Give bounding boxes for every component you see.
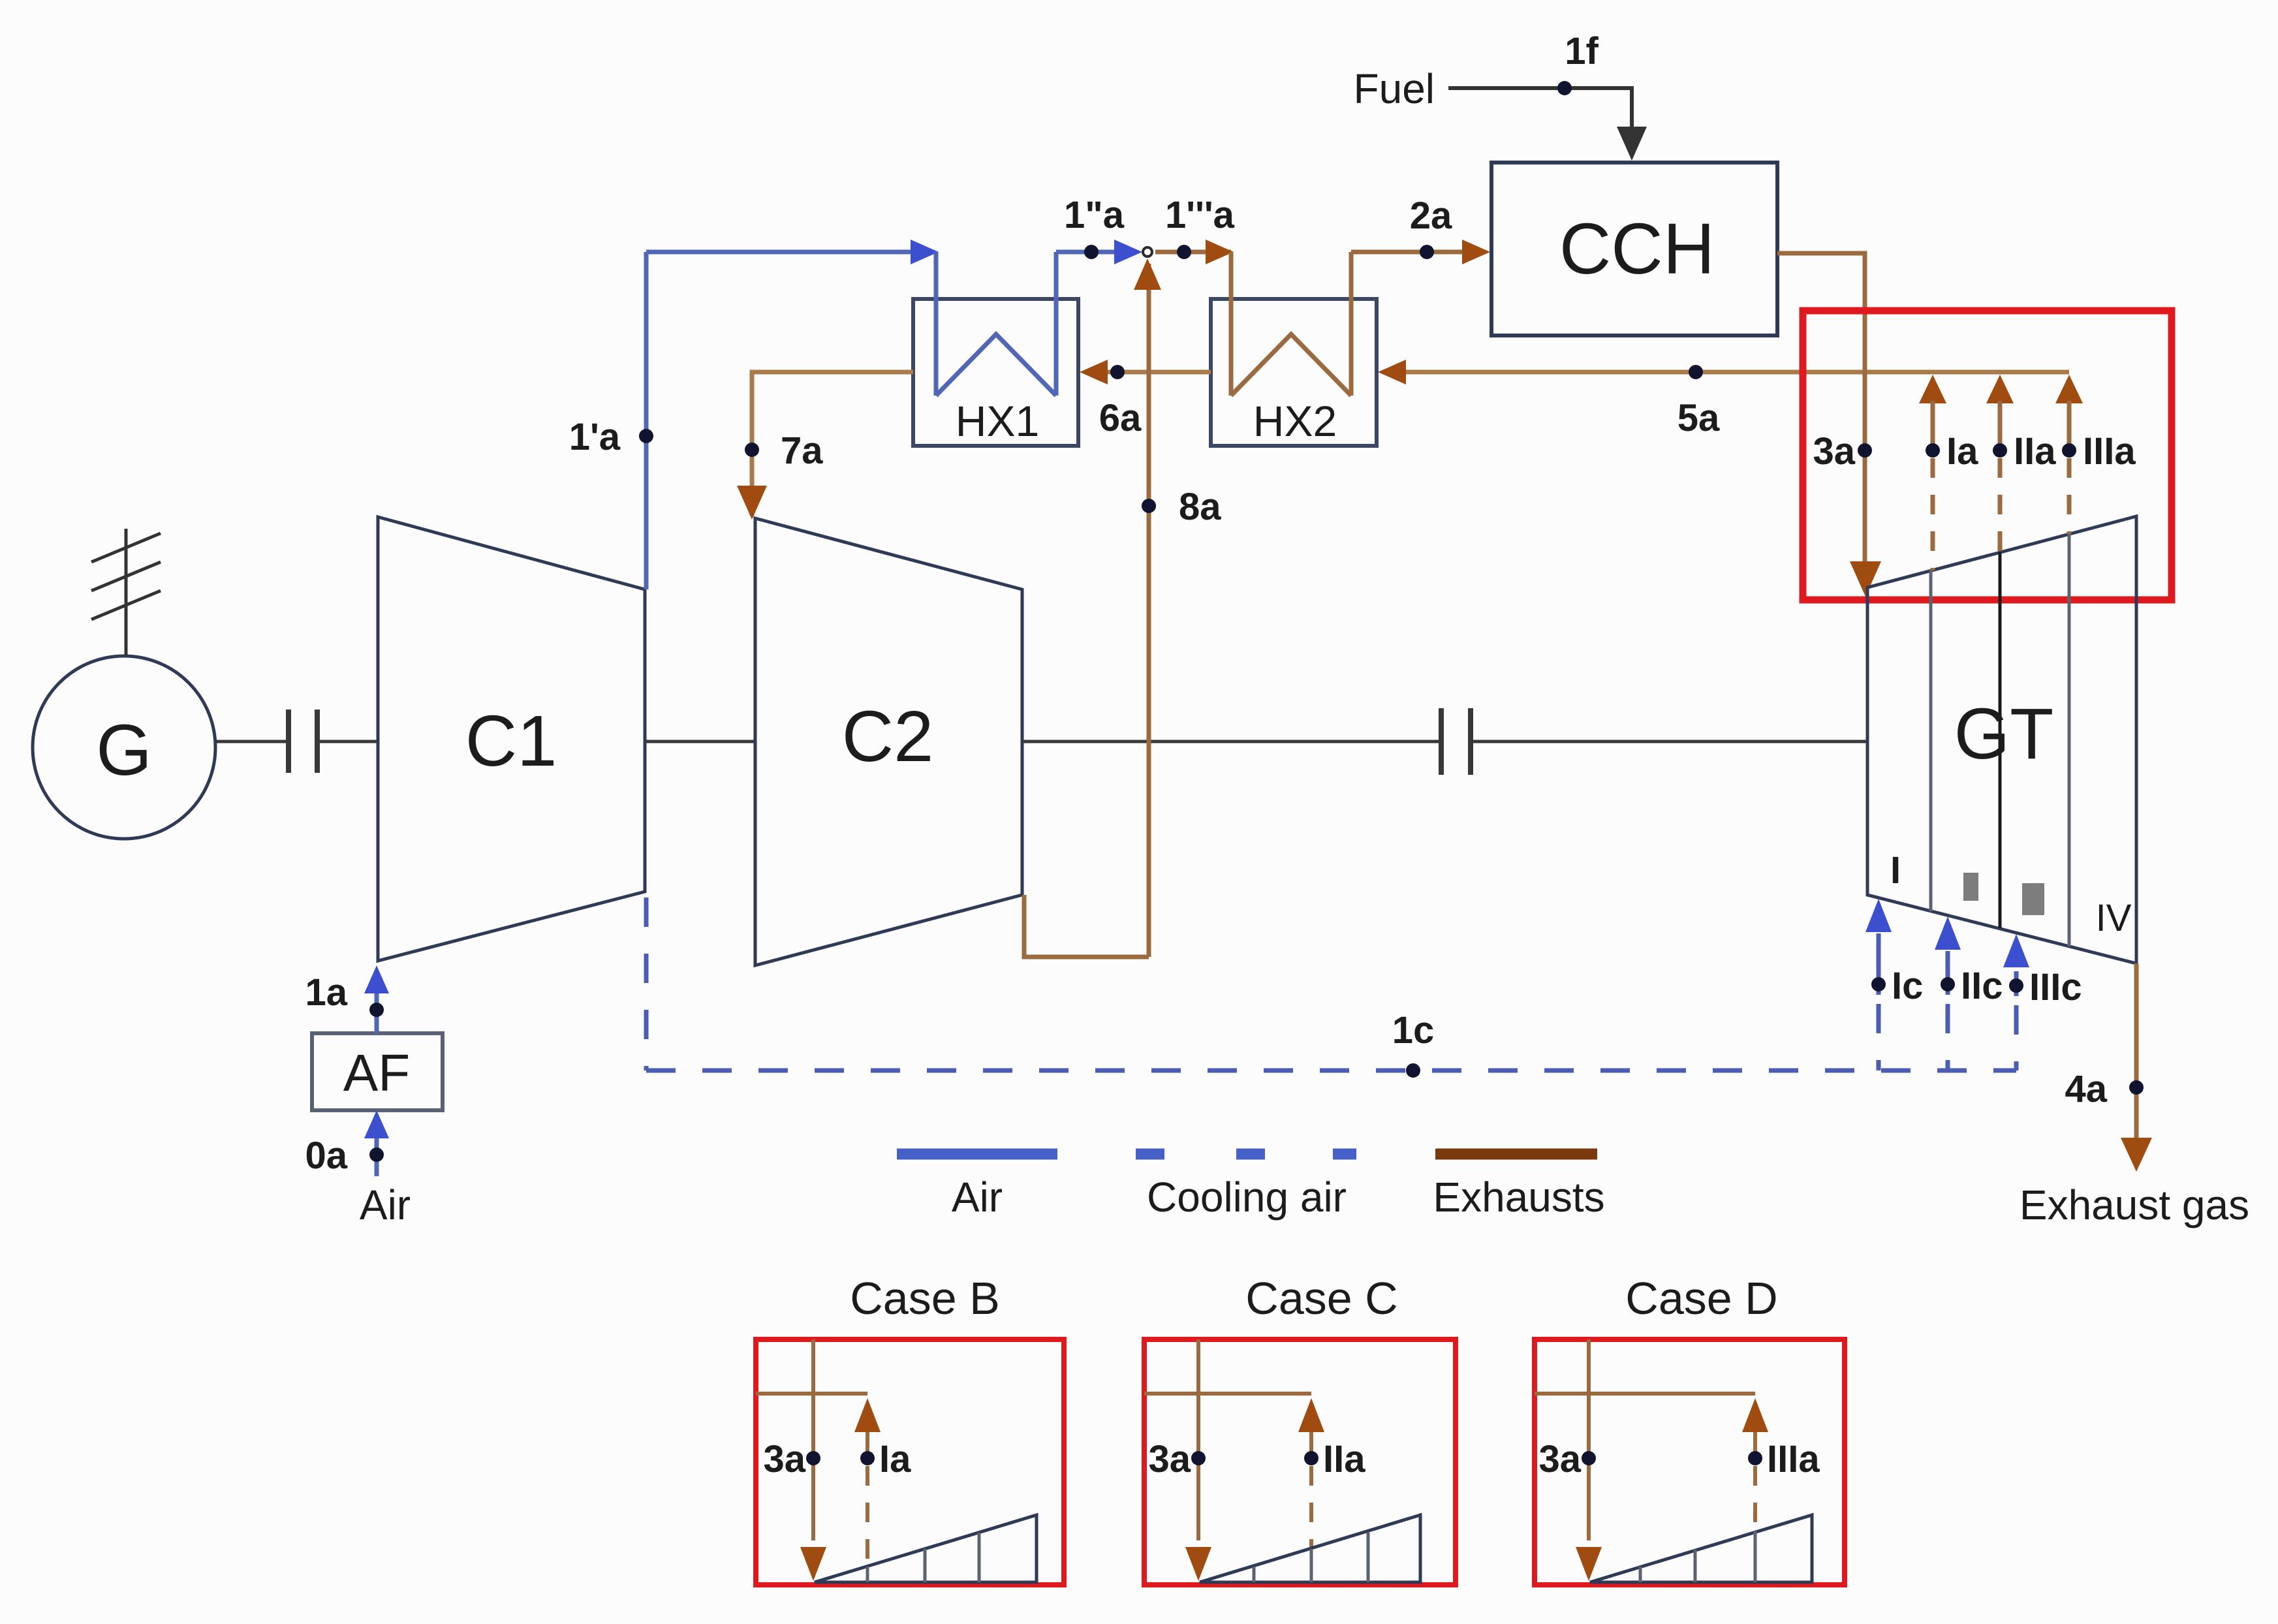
svg-text:AF: AF [343,1044,410,1102]
svg-text:IV: IV [2096,897,2132,939]
GT stage separator line 1 [1929,570,1933,911]
node 1'a dot [639,429,653,443]
bleed line IIIa arrow up [2055,375,2083,403]
node 1a dot [369,1003,384,1017]
combustion chamber CCH [1491,163,1777,336]
svg-text:1'''a: 1'''a [1165,194,1235,236]
wire 8a riser [1147,264,1151,957]
case B arrow Ia up [854,1398,881,1432]
wire AF to C1 inlet [375,992,379,1033]
svg-text:IIa: IIa [2014,430,2056,473]
grid phase slash 3 [91,591,161,619]
svg-text:IIa: IIa [1323,1438,1365,1480]
HX1 air coil outlet pipe [1054,252,1059,396]
shaft C1 to C2 [645,740,755,743]
wire exhaust 5a line to HX2 [1383,370,2069,375]
bleed line IIIa dashed [2067,458,2072,534]
case C 3a feed line [1196,1339,1200,1540]
wire junction to HX2 [1155,250,1231,255]
legend cooling air dash 2 [1236,1149,1265,1160]
GT stage separator line 3 [2068,534,2071,946]
svg-text:3a: 3a [1538,1438,1581,1480]
cooling line IIIc arrow [2003,934,2029,967]
arrow air into AF [364,1110,389,1138]
node 6a dot [1110,365,1125,379]
node 5a dot [1689,365,1703,379]
svg-text:Exhaust gas: Exhaust gas [2020,1181,2249,1228]
case B bleed Ia dashed [866,1466,869,1561]
svg-text:Ia: Ia [879,1438,911,1480]
case D bleed IIIa dashed [1753,1466,1757,1533]
svg-text:I: I [1890,849,1901,892]
bleed line IIa upper segment [1998,401,2003,450]
wire C1 outlet air riser 1'a [644,252,649,589]
arrow fuel into CCH [1617,127,1647,161]
legend air solid bar [897,1149,1057,1160]
svg-text:IIIa: IIIa [2083,430,2136,473]
HX1 air coil chevron [936,334,1056,396]
arrow exhaust into HX1 [1080,360,1108,384]
wire CCH outlet to GT inlet [1777,253,1865,567]
junction node circle [1143,247,1152,257]
HX2 gas coil chevron [1231,334,1351,396]
red box around GT top [1803,311,2172,600]
svg-text:6a: 6a [1099,397,1142,439]
svg-text:C1: C1 [465,701,557,781]
svg-text:Ia: Ia [1946,430,1978,473]
case C bleed horizontal wire [1144,1392,1311,1396]
svg-text:C2: C2 [842,696,934,777]
case C wedge separator 1 [1253,1567,1256,1582]
case D bleed horizontal wire [1535,1392,1755,1396]
svg-text:Air: Air [360,1181,411,1228]
svg-text:1f: 1f [1565,30,1599,72]
svg-text:Case B: Case B [850,1273,1000,1324]
svg-text:7a: 7a [781,429,823,472]
case B arrow 3a down [800,1547,826,1581]
node Ic dot [1871,977,1886,992]
generator G [33,656,215,839]
arrow air into junction [1114,240,1142,264]
case B node Ia dot [860,1451,875,1465]
case B turbine wedge [815,1515,1037,1582]
case D wedge separator 1 [1639,1567,1642,1582]
HX2 box [1211,299,1377,446]
node 1''a dot [1084,245,1099,259]
cooling air main dashed line 1c [646,1069,2016,1073]
svg-text:5a: 5a [1677,397,1720,439]
coupling1 bar right [315,710,320,773]
legend cooling air dash 3 [1333,1149,1356,1160]
case B wedge separator 3 [978,1533,981,1582]
HX1 air coil inlet pipe [934,252,939,396]
case B 3a feed line [811,1339,815,1540]
case B wedge separator 2 [924,1549,927,1582]
case B bleed Ia segment [866,1432,869,1458]
stage label II block [1963,873,1978,901]
case D bleed IIIa segment [1753,1432,1757,1458]
case D node 3a dot [1582,1451,1596,1465]
node IIIc dot [2009,978,2023,993]
node 0a dot [369,1148,384,1162]
arrow gas toward HX2 [1206,240,1234,264]
node 1'''a dot [1177,245,1191,259]
stage label III block [2022,883,2044,915]
case C bleed IIa dashed [1309,1466,1313,1548]
svg-text:3a: 3a [763,1438,805,1480]
arrow exhaust into C2 [737,486,767,520]
legend exhausts bar [1435,1149,1597,1160]
cooling line IIIc dashed [2014,971,2019,996]
case C node IIa dot [1304,1451,1318,1465]
shaft G to coupling1 [215,740,286,743]
bleed line Ia dashed [1931,458,1935,570]
svg-text:G: G [96,710,152,790]
svg-text:CCH: CCH [1559,209,1715,289]
svg-text:0a: 0a [305,1134,347,1177]
HX2 gas coil outlet pipe [1349,252,1354,396]
node 4a dot [2129,1080,2144,1095]
svg-text:IIIa: IIIa [1767,1438,1820,1480]
node 7a dot [745,443,759,457]
case D 3a feed line [1587,1339,1591,1540]
case C wedge separator 3 [1367,1533,1370,1582]
node Ia dot [1926,443,1940,458]
bleed line IIa dashed [1998,458,2003,552]
legend cooling air dash 1 [1136,1149,1164,1160]
wire C2 bleed to 8a riser [1024,895,1149,957]
svg-text:3a: 3a [1813,430,1855,473]
case C wedge separator 2 [1310,1549,1313,1582]
svg-text:4a: 4a [2065,1068,2107,1110]
node IIa dot [1993,443,2007,458]
wire cooling air dashed below C1 [644,898,649,1070]
svg-text:Case C: Case C [1245,1273,1397,1324]
case D arrow IIIa up [1742,1398,1768,1432]
svg-text:1c: 1c [1392,1009,1435,1052]
svg-text:1"a: 1"a [1064,194,1125,236]
svg-text:1'a: 1'a [569,416,621,458]
wire fuel line [1448,88,1632,131]
arrow exhaust gas out [2121,1138,2152,1172]
svg-text:HX1: HX1 [956,397,1039,445]
svg-text:IIIc: IIIc [2029,966,2082,1008]
svg-text:IIc: IIc [1961,965,2003,1007]
case C arrow 3a down [1185,1547,1211,1581]
wire exhaust HX2 to HX1 [1085,370,1211,375]
wire exhaust HX1 to 7a drop [752,372,913,516]
node 8a dot [1142,499,1156,513]
bleed line Ia upper segment [1931,401,1935,450]
svg-text:Exhausts: Exhausts [1433,1174,1604,1221]
svg-text:Ic: Ic [1892,965,1923,1007]
node 3a dot [1858,443,1872,458]
node 1c dot [1406,1063,1420,1078]
shaft C2 to coupling2 [1022,740,1441,743]
svg-text:Air: Air [952,1174,1003,1221]
heat exchanger HX1 box [913,299,1078,446]
case C red box [1144,1339,1456,1585]
coupling2 bar right [1468,708,1473,775]
case C turbine wedge [1200,1515,1420,1582]
wire grid connection vertical [125,529,128,656]
case D red box [1535,1339,1845,1585]
case D arrow 3a down [1576,1547,1602,1581]
cooling line IIc dashed [1946,951,1950,995]
grid phase slash 1 [91,533,161,562]
case D wedge separator 3 [1754,1531,1757,1582]
node IIc dot [1941,977,1955,992]
case B bleed horizontal wire [756,1392,867,1396]
compressor C2 [755,518,1022,965]
grid phase slash 2 [91,562,161,591]
arrow 8a into junction [1134,258,1161,290]
shaft coupling1 to C1 [320,740,378,743]
coupling2 bar left [1439,708,1444,775]
cooling line Ic arrow [1865,899,1892,932]
bleed line Ia arrow up [1919,375,1946,403]
node 1f dot [1557,81,1572,95]
arrow gas into GT [1850,561,1881,597]
arrow air into HX1 pipe [911,240,939,264]
svg-text:Fuel: Fuel [1354,65,1435,112]
case B node 3a dot [806,1451,820,1465]
wire GT exhaust 4a [2134,963,2139,1142]
svg-text:2a: 2a [1410,195,1452,237]
case C arrow IIa up [1298,1398,1324,1432]
wire air to HX1 [646,250,919,255]
wire air HX1 to junction [1056,250,1127,255]
arrow gas into CCH [1462,240,1490,264]
compressor C1 [378,517,645,961]
arrow air into C1 [364,965,389,993]
gas turbine GT [1867,516,2136,963]
cooling line Ic dashed [1877,933,1881,995]
node 2a dot [1420,245,1434,259]
case C node 3a dot [1191,1451,1206,1465]
case D turbine wedge [1590,1515,1812,1582]
svg-text:GT: GT [1954,694,2054,774]
case D node IIIa dot [1748,1451,1762,1465]
svg-text:1a: 1a [305,971,347,1014]
case B wedge separator 1 [866,1567,869,1582]
wire air inlet below AF [375,1136,379,1176]
arrow exhaust into HX2 [1378,360,1406,384]
bleed line IIa arrow up [1986,375,2014,403]
cooling line IIc arrow [1935,916,1961,950]
svg-text:HX2: HX2 [1253,397,1337,445]
svg-text:8a: 8a [1179,486,1221,528]
node IIIa dot [2062,443,2076,458]
case B red box [756,1339,1064,1585]
air filter AF [312,1033,443,1110]
wire HX2 to CCH [1351,250,1483,255]
shaft coupling2 to GT [1473,740,1867,743]
svg-text:Cooling air: Cooling air [1147,1174,1347,1221]
svg-text:Case D: Case D [1625,1273,1777,1324]
coupling1 bar left [286,710,291,773]
case D wedge separator 2 [1694,1550,1697,1582]
svg-text:3a: 3a [1148,1438,1191,1480]
HX2 gas coil inlet pipe [1229,252,1234,396]
bleed line IIIa upper segment [2067,401,2072,450]
case C bleed IIa segment [1309,1432,1313,1458]
GT stage separator line 2 [1999,552,2002,928]
